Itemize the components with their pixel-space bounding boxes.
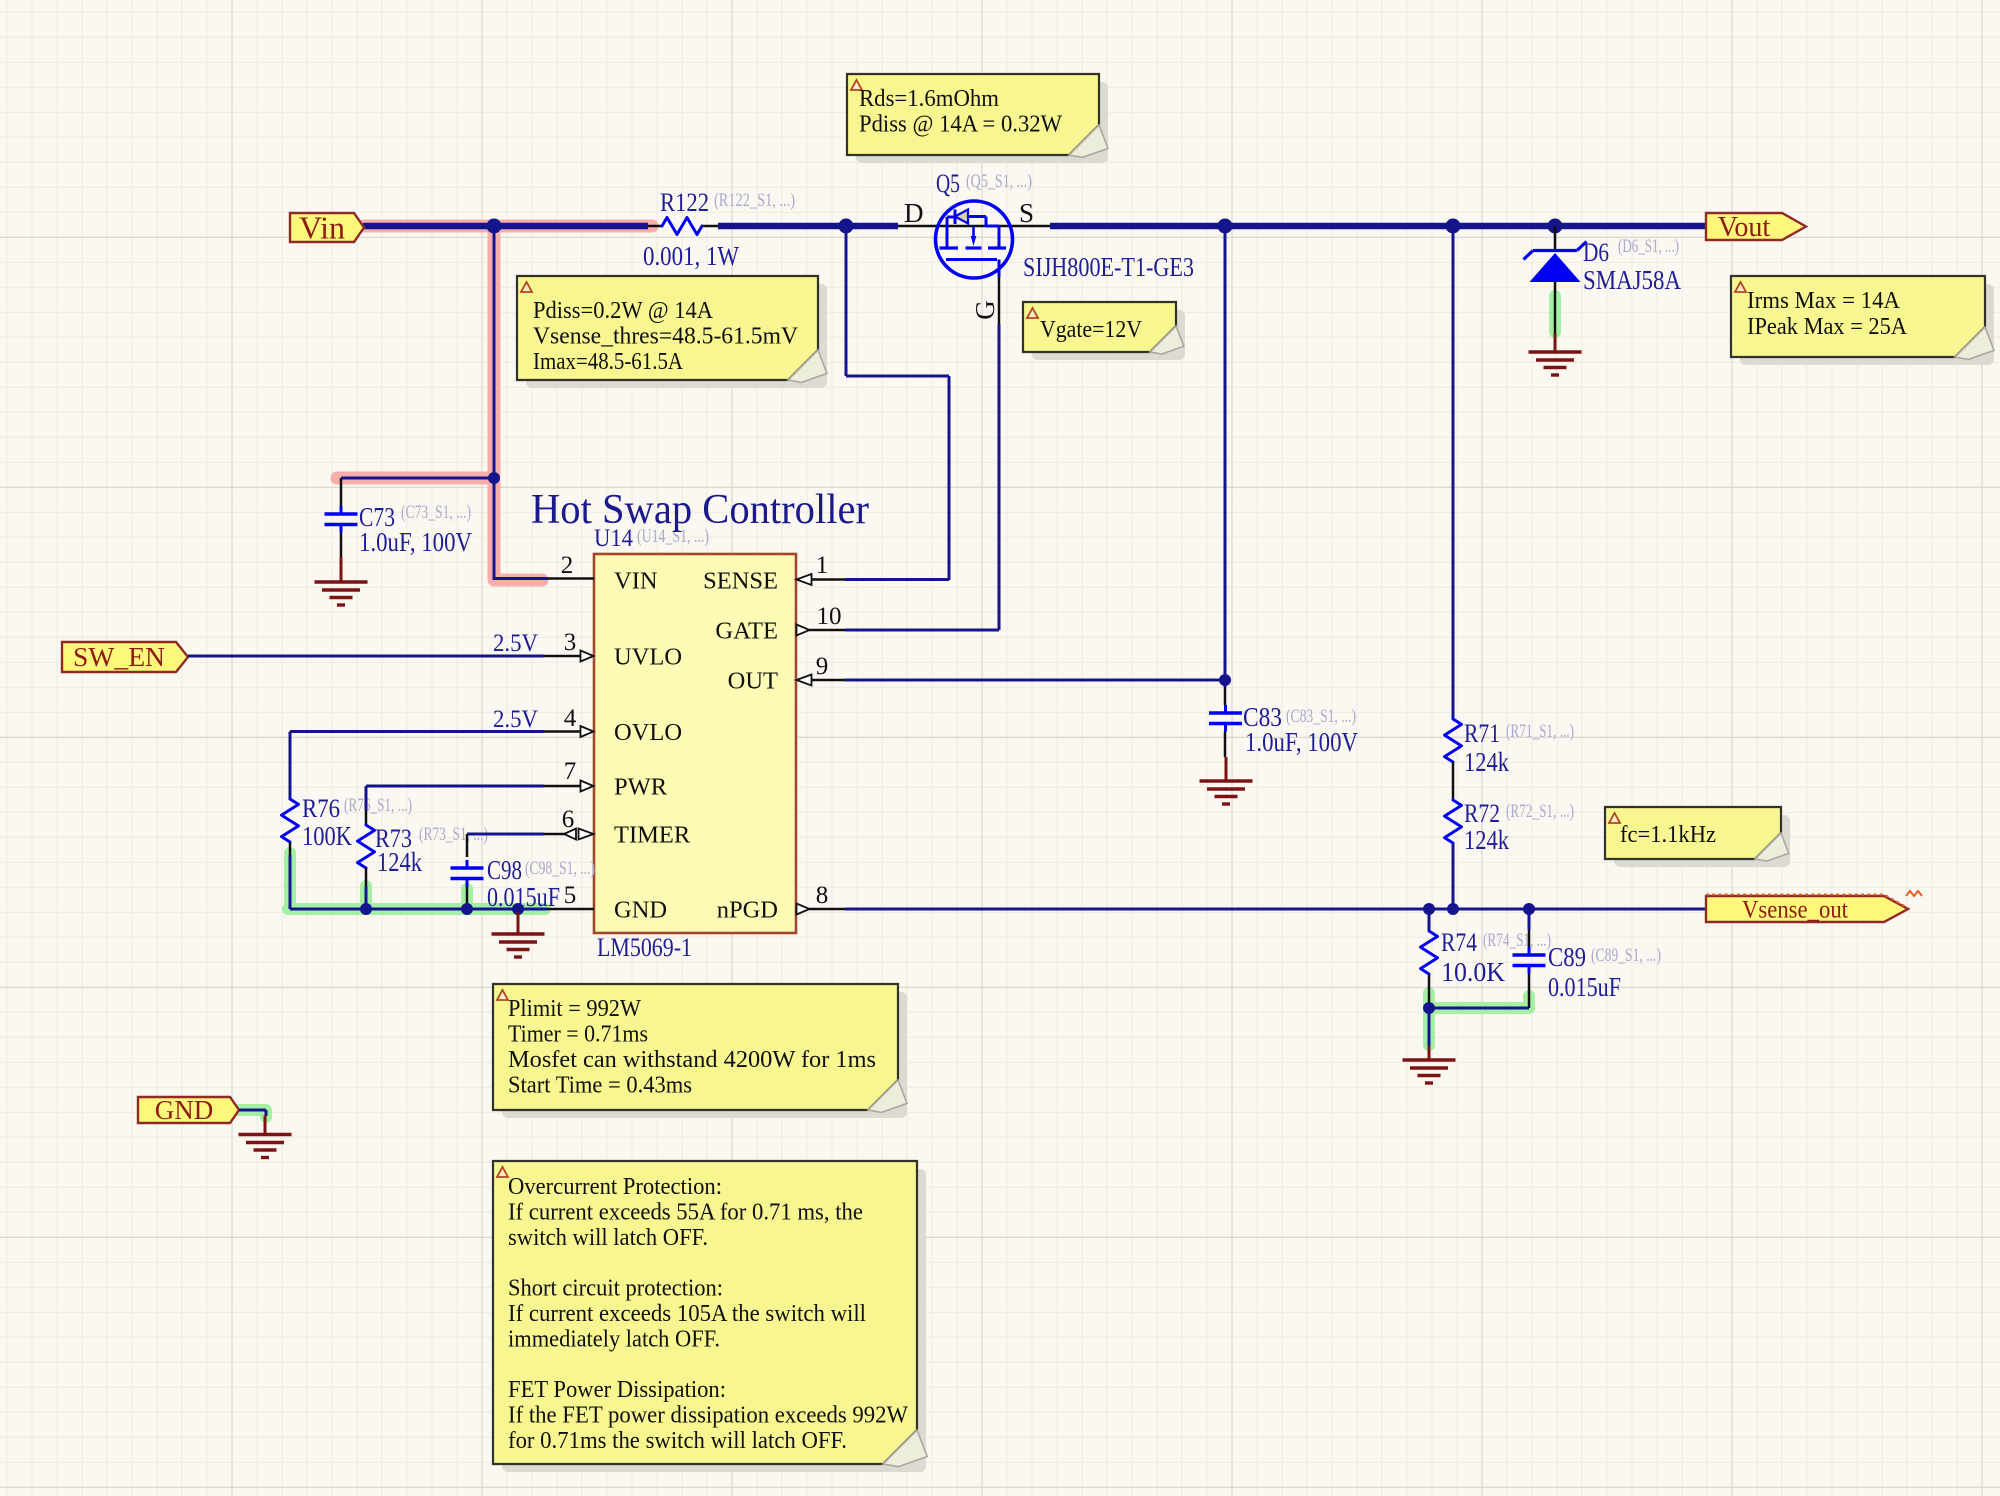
svg-text:If current exceeds 105A the sw: If current exceeds 105A the switch will bbox=[508, 1301, 866, 1327]
svg-text:C98: C98 bbox=[487, 855, 522, 885]
svg-text:Start Time = 0.43ms: Start Time = 0.43ms bbox=[508, 1073, 692, 1099]
svg-text:8: 8 bbox=[816, 882, 829, 909]
svg-text:SENSE: SENSE bbox=[703, 568, 778, 595]
svg-text:Overcurrent Protection:: Overcurrent Protection: bbox=[508, 1174, 722, 1200]
pin 9 OUT bbox=[728, 653, 845, 695]
svg-text:Rds=1.6mOhm: Rds=1.6mOhm bbox=[859, 86, 999, 112]
svg-text:0.015uF: 0.015uF bbox=[1548, 972, 1621, 1002]
node OUT/C83 junction bbox=[1219, 674, 1231, 686]
pin 4 OVLO bbox=[544, 705, 682, 746]
svg-text:GATE: GATE bbox=[715, 618, 778, 645]
svg-text:0.001, 1W: 0.001, 1W bbox=[643, 241, 739, 271]
svg-text:UVLO: UVLO bbox=[614, 644, 682, 671]
capacitor C83 bbox=[1209, 687, 1358, 757]
svg-text:If the FET power dissipation e: If the FET power dissipation exceeds 992… bbox=[508, 1403, 908, 1429]
svg-text:PWR: PWR bbox=[614, 774, 668, 801]
wire bus R122 to Q5 bbox=[718, 223, 898, 230]
svg-text:S: S bbox=[1019, 198, 1034, 228]
wire OVLO net bbox=[290, 732, 544, 800]
svg-text:Vsense_out: Vsense_out bbox=[1742, 897, 1848, 924]
svg-text:2.5V: 2.5V bbox=[493, 630, 538, 657]
note Pdiss/Vsense_thres bbox=[517, 276, 827, 388]
wire GND net bbox=[290, 908, 547, 911]
net label 2.5V UVLO bbox=[493, 630, 538, 657]
svg-text:(C83_S1, ...): (C83_S1, ...) bbox=[1286, 706, 1356, 727]
svg-text:immediately latch OFF.: immediately latch OFF. bbox=[508, 1326, 720, 1352]
wire R74/C89 ground net bbox=[1429, 1008, 1529, 1046]
pin 7 PWR bbox=[544, 758, 668, 801]
svg-text:R74: R74 bbox=[1441, 928, 1477, 957]
svg-text:IPeak Max = 25A: IPeak Max = 25A bbox=[1747, 314, 1908, 340]
svg-text:R122: R122 bbox=[660, 188, 709, 217]
wire highlight Vin net (pink) bbox=[337, 226, 652, 580]
ground under U14 GND pin bbox=[492, 912, 545, 957]
wire nPGD / Vsense_out net bbox=[845, 908, 1706, 911]
port Vin bbox=[290, 209, 364, 245]
port Vsense_out bbox=[1706, 891, 1922, 924]
capacitor C98 bbox=[451, 855, 596, 912]
pin 3 UVLO bbox=[544, 629, 682, 671]
node C89 junction bbox=[1523, 903, 1535, 915]
svg-text:R71: R71 bbox=[1464, 719, 1500, 748]
node R74 junction bbox=[1423, 903, 1435, 915]
svg-text:3: 3 bbox=[564, 629, 577, 656]
node R71R72 bottom junction bbox=[1447, 903, 1459, 915]
svg-text:100K: 100K bbox=[302, 821, 352, 851]
svg-text:Q5: Q5 bbox=[936, 169, 960, 198]
wire GND port stub bbox=[239, 1110, 266, 1116]
svg-text:Short circuit protection:: Short circuit protection: bbox=[508, 1276, 723, 1302]
node OUT column junction bbox=[1218, 219, 1233, 234]
svg-text:124k: 124k bbox=[1464, 747, 1509, 777]
svg-text:(R71_S1, ...): (R71_S1, ...) bbox=[1506, 721, 1574, 742]
svg-text:SMAJ58A: SMAJ58A bbox=[1583, 265, 1681, 295]
svg-text:1.0uF, 100V: 1.0uF, 100V bbox=[1245, 727, 1358, 757]
svg-text:1: 1 bbox=[816, 552, 829, 579]
node R74 gnd junction bbox=[1423, 1002, 1435, 1014]
node D6 junction bbox=[1548, 219, 1563, 234]
note Rds bbox=[847, 74, 1108, 163]
svg-text:10: 10 bbox=[817, 603, 842, 630]
title Hot Swap Controller bbox=[531, 487, 869, 533]
svg-text:10.0K: 10.0K bbox=[1441, 957, 1505, 987]
svg-text:(C89_S1, ...): (C89_S1, ...) bbox=[1591, 945, 1661, 966]
svg-text:TIMER: TIMER bbox=[614, 822, 691, 849]
pin 6 TIMER bbox=[544, 806, 691, 849]
port GND bbox=[138, 1095, 239, 1125]
svg-text:Pdiss=0.2W @ 14A: Pdiss=0.2W @ 14A bbox=[533, 298, 714, 324]
svg-text:4: 4 bbox=[564, 705, 577, 732]
wire Vin vertical to C73/VIN pin bbox=[341, 226, 547, 580]
wire R73 to GND net bbox=[365, 886, 368, 909]
svg-text:Timer = 0.71ms: Timer = 0.71ms bbox=[508, 1022, 648, 1048]
svg-text:fc=1.1kHz: fc=1.1kHz bbox=[1620, 822, 1716, 848]
wire Vin bus bbox=[363, 223, 648, 230]
pin 2 VIN bbox=[547, 552, 658, 595]
svg-text:(R72_S1, ...): (R72_S1, ...) bbox=[1506, 801, 1574, 822]
svg-text:G: G bbox=[970, 300, 1000, 320]
note Plimit/Timer bbox=[493, 984, 907, 1118]
wire gate net Q5 G to pin10 bbox=[845, 277, 999, 630]
svg-text:for 0.71ms the switch will lat: for 0.71ms the switch will latch OFF. bbox=[508, 1428, 847, 1454]
svg-text:nPGD: nPGD bbox=[717, 897, 778, 924]
wire SW_EN to UVLO bbox=[188, 655, 544, 658]
svg-text:OUT: OUT bbox=[728, 668, 778, 695]
node R73/GND junction bbox=[360, 903, 372, 915]
svg-text:124k: 124k bbox=[377, 847, 422, 877]
svg-text:2.5V: 2.5V bbox=[493, 706, 538, 733]
svg-text:D: D bbox=[904, 198, 924, 228]
node C98/GND junction bbox=[461, 903, 473, 915]
wire between R71 R72 bbox=[1452, 762, 1455, 800]
svg-text:(C73_S1, ...): (C73_S1, ...) bbox=[401, 502, 471, 523]
ground at GND port bbox=[239, 1116, 292, 1158]
svg-text:SIJH800E-T1-GE3: SIJH800E-T1-GE3 bbox=[1023, 252, 1194, 282]
wire R72 to Vsense line bbox=[1452, 843, 1455, 909]
svg-text:7: 7 bbox=[564, 758, 577, 785]
wire sense net to pin1 bbox=[845, 226, 949, 580]
resistor R122 bbox=[643, 188, 795, 271]
capacitor C89 bbox=[1513, 909, 1662, 1008]
node R71 column junction bbox=[1446, 219, 1461, 234]
svg-text:OVLO: OVLO bbox=[614, 719, 682, 746]
ground under C73 bbox=[315, 557, 368, 605]
net label 2.5V OVLO bbox=[493, 706, 538, 733]
transistor Q5 bbox=[898, 169, 1194, 320]
wire R76 to GND net bbox=[289, 855, 292, 909]
svg-text:D6: D6 bbox=[1583, 238, 1609, 267]
pin 10 GATE bbox=[715, 603, 845, 645]
svg-text:SW_EN: SW_EN bbox=[73, 642, 165, 672]
svg-text:9: 9 bbox=[816, 653, 829, 680]
pin 8 nPGD bbox=[717, 882, 845, 924]
resistor R76 bbox=[282, 794, 413, 855]
svg-text:Imax=48.5-61.5A: Imax=48.5-61.5A bbox=[533, 349, 684, 375]
svg-text:Pdiss @ 14A = 0.32W: Pdiss @ 14A = 0.32W bbox=[859, 112, 1062, 138]
wire Vout bus bbox=[1050, 223, 1706, 230]
ground under C83 bbox=[1200, 757, 1253, 804]
svg-text:GND: GND bbox=[155, 1095, 214, 1125]
wire R71 column bbox=[1452, 226, 1455, 719]
svg-text:Plimit = 992W: Plimit = 992W bbox=[508, 996, 641, 1022]
note Overcurrent Protection bbox=[493, 1161, 927, 1472]
node C73 tap junction bbox=[488, 472, 500, 484]
ground under D6 bbox=[1529, 333, 1582, 375]
svg-text:Irms Max = 14A: Irms Max = 14A bbox=[1747, 288, 1901, 314]
svg-text:GND: GND bbox=[614, 897, 667, 924]
resistor R73 bbox=[358, 810, 489, 886]
svg-text:Vgate=12V: Vgate=12V bbox=[1040, 317, 1143, 343]
svg-text:1.0uF, 100V: 1.0uF, 100V bbox=[359, 527, 472, 557]
note Irms/IPeak bbox=[1731, 276, 1994, 365]
svg-text:(R122_S1, ...): (R122_S1, ...) bbox=[714, 190, 795, 211]
svg-text:R72: R72 bbox=[1464, 799, 1500, 828]
svg-text:(C98_S1, ...): (C98_S1, ...) bbox=[525, 858, 595, 879]
diode D6 bbox=[1524, 226, 1682, 333]
svg-text:(R76_S1, ...): (R76_S1, ...) bbox=[344, 795, 412, 816]
wire OUT net pin9 to C83 column bbox=[845, 226, 1225, 687]
capacitor C73 bbox=[325, 478, 473, 557]
port Vout bbox=[1706, 212, 1806, 243]
ground under R74 bbox=[1403, 1046, 1456, 1083]
svg-text:124k: 124k bbox=[1464, 825, 1509, 855]
wire PWR net bbox=[366, 786, 544, 810]
port SW_EN bbox=[62, 642, 188, 672]
svg-text:If current exceeds 55A for 0.7: If current exceeds 55A for 0.71 ms, the bbox=[508, 1199, 863, 1225]
svg-text:switch will latch OFF.: switch will latch OFF. bbox=[508, 1225, 708, 1251]
wire highlight GND net (green) bbox=[238, 296, 1555, 1117]
node Vin junction bbox=[487, 219, 502, 234]
svg-text:FET Power Dissipation:: FET Power Dissipation: bbox=[508, 1377, 726, 1403]
svg-text:C89: C89 bbox=[1548, 942, 1586, 972]
svg-text:5: 5 bbox=[564, 882, 577, 909]
svg-text:R76: R76 bbox=[302, 794, 340, 823]
svg-text:2: 2 bbox=[561, 552, 574, 579]
svg-text:Mosfet can withstand 4200W for: Mosfet can withstand 4200W for 1ms bbox=[508, 1047, 876, 1073]
node SENSE tap junction bbox=[839, 219, 854, 234]
IC U14 LM5069-1 bbox=[594, 525, 796, 962]
svg-text:Vsense_thres=48.5-61.5mV: Vsense_thres=48.5-61.5mV bbox=[533, 324, 799, 350]
svg-text:(Q5_S1, ...): (Q5_S1, ...) bbox=[966, 171, 1032, 192]
resistor R71 bbox=[1445, 719, 1575, 777]
note fc bbox=[1605, 807, 1790, 867]
pin 1 SENSE bbox=[703, 552, 845, 595]
node gnd-stem junction bbox=[512, 903, 524, 915]
svg-text:LM5069-1: LM5069-1 bbox=[597, 933, 692, 962]
svg-text:(D6_S1, ...): (D6_S1, ...) bbox=[1618, 236, 1679, 257]
svg-text:Vout: Vout bbox=[1718, 212, 1771, 243]
wire TIMER net bbox=[467, 834, 544, 857]
svg-text:(R74_S1, ...): (R74_S1, ...) bbox=[1483, 930, 1551, 951]
svg-text:VIN: VIN bbox=[614, 568, 658, 595]
svg-text:6: 6 bbox=[562, 806, 575, 833]
note Vgate bbox=[1023, 302, 1185, 360]
svg-text:Vin: Vin bbox=[299, 209, 345, 245]
pin 5 GND bbox=[547, 882, 667, 924]
resistor R74 bbox=[1421, 909, 1552, 1008]
resistor R72 bbox=[1445, 799, 1575, 855]
svg-text:Hot Swap Controller: Hot Swap Controller bbox=[531, 487, 869, 533]
